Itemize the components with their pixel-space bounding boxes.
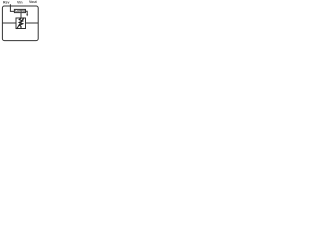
wire outer loop [2,6,38,41]
wire control to arrow [26,11,28,15]
arrowhead diagonal [22,17,24,20]
resistor zigzag [19,18,22,28]
svg-text:Vin: Vin [17,0,23,4]
component box R1 [16,18,26,29]
arrowhead control [26,14,28,16]
wire connector control to component [20,13,22,18]
arrow diagonal [17,19,24,30]
svg-text:Rsv: Rsv [3,0,9,4]
wire mid left [2,22,16,24]
wire tap vertical [10,4,14,11]
circuit schematic thumbnail [0,0,42,42]
svg-text:Vout: Vout [29,0,38,4]
svg-text:Control: Control [15,9,25,13]
wire mid right [26,22,39,24]
control box U1 [14,9,25,12]
